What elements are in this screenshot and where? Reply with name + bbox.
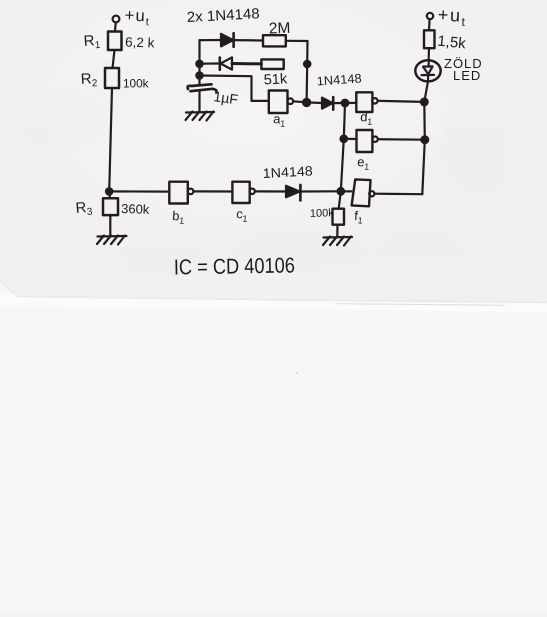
svg-text:1N4148: 1N4148 [262, 163, 313, 181]
paper fold edge [18, 297, 547, 303]
wire [344, 138, 357, 140]
svg-text:51k: 51k [263, 71, 288, 88]
wire [428, 19, 431, 30]
resistor R3 [103, 198, 118, 215]
wire [108, 191, 111, 198]
inverter f1 [352, 179, 375, 206]
wire [293, 101, 307, 102]
node e1 output [421, 136, 428, 143]
wire [255, 190, 286, 192]
wire [422, 140, 425, 195]
svg-text:6,2 k: 6,2 k [125, 35, 155, 51]
wire [333, 102, 345, 104]
svg-text:100k: 100k [310, 207, 335, 220]
wire [378, 101, 425, 102]
node d1 input [342, 100, 349, 107]
wire [336, 225, 338, 237]
wire [234, 39, 263, 42]
wire [307, 101, 322, 104]
LED green [415, 60, 440, 81]
wire [428, 48, 430, 58]
paper corner crease [0, 281, 18, 297]
diode D2 [200, 57, 233, 69]
wire [109, 215, 111, 236]
wire [345, 102, 356, 104]
wire [109, 190, 169, 192]
wire [423, 102, 426, 140]
paper speck [296, 372, 298, 374]
capacitor C1 [188, 84, 217, 92]
wire row3 to a1 input [200, 76, 269, 101]
diode D1 [221, 33, 234, 47]
wire RC left vertical [198, 40, 200, 84]
svg-text:1,5k: 1,5k [437, 33, 467, 53]
wire [109, 88, 112, 191]
inverter b1 [169, 182, 193, 204]
diode D4 1N4148 [286, 185, 300, 201]
node row2 left [196, 61, 202, 67]
diode D3 1N4148 [322, 97, 333, 110]
paper top sheet [0, 0, 547, 303]
node a1 output [303, 99, 310, 106]
svg-text:360k: 360k [121, 201, 150, 217]
terminal +Ut right [427, 13, 433, 19]
svg-text:1µF: 1µF [213, 88, 239, 107]
inverter a1 [269, 91, 293, 114]
resistor 51k [261, 59, 283, 69]
svg-text:100k: 100k [123, 77, 149, 91]
wire [113, 50, 115, 68]
wire [232, 62, 261, 65]
paper bottom edge shade [0, 611, 547, 617]
wire RC right vertical [306, 41, 309, 103]
resistor R4 100k [333, 209, 345, 225]
node R3 junction [106, 188, 112, 194]
wire [424, 81, 428, 102]
ground [186, 112, 215, 121]
node row3 left [196, 72, 202, 78]
ground [97, 236, 127, 245]
paper lower sheet edge highlight [0, 294, 547, 312]
wire [286, 40, 308, 42]
wire [300, 190, 340, 192]
wire [193, 190, 232, 192]
inverter e1 [357, 130, 378, 152]
ground [323, 237, 352, 246]
terminal +Ut left [113, 16, 120, 23]
svg-text:LED: LED [453, 68, 481, 83]
resistor R5 1.5k [424, 30, 435, 48]
wire [114, 23, 117, 32]
inverter c1 [232, 182, 255, 203]
inverter d1 [356, 92, 377, 112]
wire [374, 193, 422, 196]
resistor R2 [105, 68, 119, 88]
wire [198, 91, 200, 112]
paper mottling [15, 90, 520, 278]
wire input bus vertical [341, 103, 345, 191]
wire [378, 138, 425, 141]
wire [341, 190, 352, 192]
wire [339, 191, 341, 208]
resistor 2M [263, 35, 286, 46]
resistor R1 [108, 32, 122, 51]
svg-text:2M: 2M [269, 20, 291, 38]
svg-text:IC = CD 40106: IC = CD 40106 [174, 253, 295, 279]
node e1 input [341, 136, 348, 143]
node row2 right [304, 61, 310, 67]
node f1 input [338, 188, 345, 195]
wire top row [200, 39, 222, 41]
node d1 output [421, 99, 428, 106]
